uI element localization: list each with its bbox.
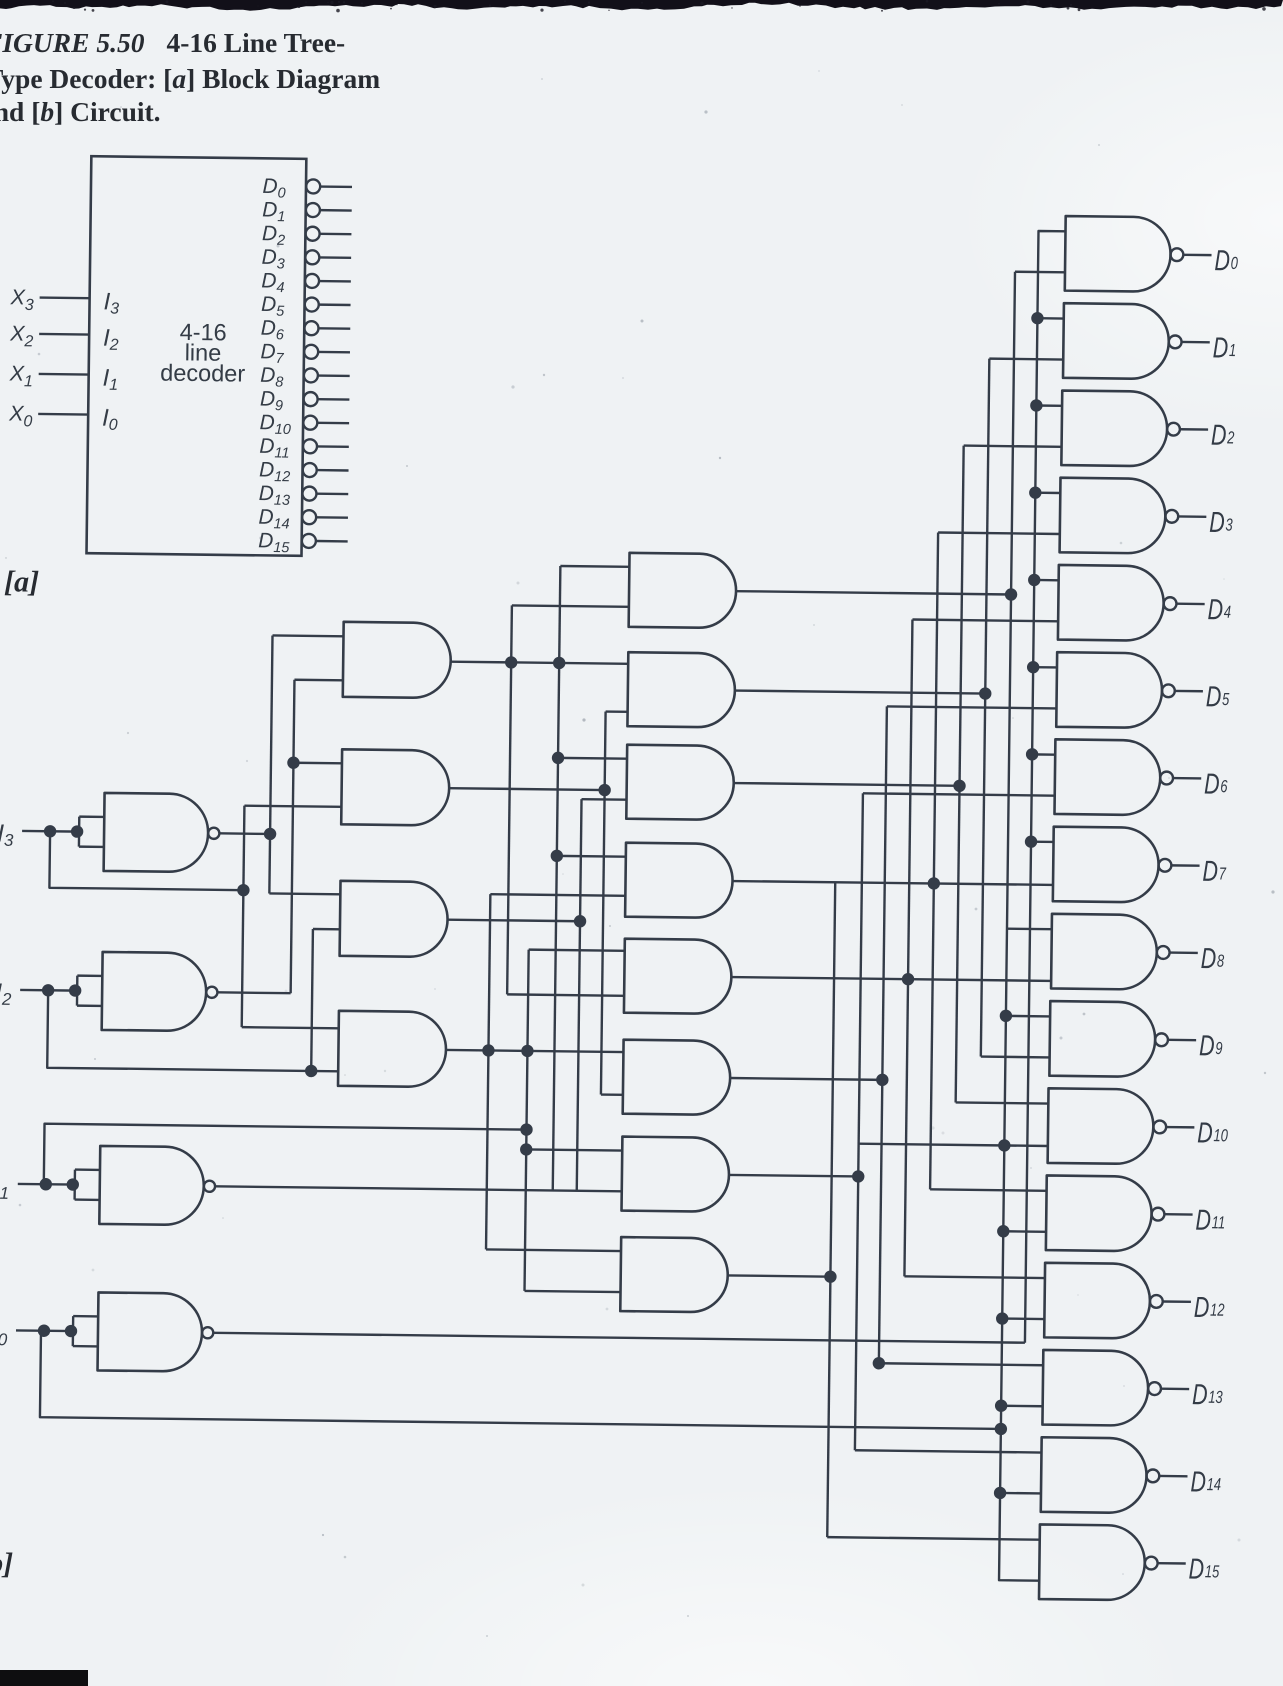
wire B4 bottom input line <box>490 894 625 896</box>
wire output D5 <box>1175 690 1203 693</box>
label D12 output <box>1194 1292 1225 1324</box>
bubble output D7 <box>1158 859 1171 872</box>
wire v530 riser (B5.top to B8.bottom) <box>525 950 529 1291</box>
junction A4 output at v530 <box>521 1045 534 1058</box>
AND gate B8 <box>620 1237 728 1312</box>
wire B2 output <box>735 691 985 694</box>
NAND gate D13 <box>1042 1350 1148 1426</box>
bubble output D9 <box>1155 1033 1168 1046</box>
wire I2-bar riser (A1.bottom to inverter) <box>291 680 295 993</box>
NAND gate D5 <box>1056 652 1162 728</box>
wire inverter I1 input bracket lower <box>75 1198 100 1201</box>
wire B5 riser (D4.bottom to D12.top) <box>904 619 912 1276</box>
junction I3 on riser <box>237 884 250 897</box>
junction trunk at D9 top <box>1000 1010 1013 1023</box>
wire D6 top input stub <box>1032 753 1055 756</box>
wire D13 bottom input stub <box>1001 1405 1042 1408</box>
bubble block output D12 <box>303 463 317 477</box>
wire I0 branch down long line <box>40 1331 1002 1429</box>
wire B5 bottom input stub <box>507 994 624 995</box>
junction I0 gate tie <box>65 1325 78 1338</box>
junction B1 output at trunk <box>1005 588 1018 601</box>
wire I2 riser (A3 bottom to I2 line) <box>311 929 313 1071</box>
junction trunk at I0 line <box>995 1423 1008 1436</box>
wire B3 output <box>734 783 960 786</box>
junction trunk at D13 bottom <box>995 1399 1008 1412</box>
NAND gate D2 <box>1061 391 1167 467</box>
wire B7 riser (D6.bottom to D14.top) <box>855 793 863 1450</box>
junction v557 at B3 top <box>552 752 565 765</box>
AND gate A2 <box>341 749 449 825</box>
NAND gate D0 <box>1065 216 1171 292</box>
label D8 output <box>1201 943 1225 975</box>
wire block output D8 <box>318 374 350 377</box>
wire D11 bottom input stub <box>1003 1230 1046 1233</box>
junction A3 output <box>574 915 587 928</box>
bubble output D1 <box>1169 335 1182 348</box>
bubble inverter I1 <box>204 1181 215 1192</box>
wire D13 top input line <box>879 1363 1043 1365</box>
junction B8 output <box>824 1270 837 1283</box>
AND gate A3 <box>340 881 448 957</box>
wire B6 riser (D5.bottom to D13.top) <box>879 706 887 1363</box>
label D6 output <box>1204 768 1228 800</box>
wire B5 top input stub <box>529 950 625 951</box>
bubble block output D0 <box>306 179 320 193</box>
wire D2 bottom input stub <box>964 446 1062 447</box>
inverter (NAND) for I3 <box>104 793 209 872</box>
wire D10 bottom input line <box>859 1144 1048 1146</box>
wire output D14 <box>1159 1475 1187 1478</box>
junction v530 at I1 line <box>520 1123 533 1136</box>
junction trunk at D1 top <box>1031 312 1044 325</box>
bubble block output D9 <box>304 392 318 406</box>
junction B2 output <box>979 687 992 700</box>
NAND gate D3 <box>1060 478 1166 554</box>
wire A2 top input stub <box>293 762 341 765</box>
wire I2 branch down to A4 bottom <box>47 990 339 1071</box>
trunk vertical feeding D0/D8-D15 inputs <box>999 272 1055 1581</box>
wire block output D4 <box>319 280 351 283</box>
wire B1 top input stub <box>560 565 629 568</box>
wire output D6 <box>1173 777 1201 780</box>
wire A1 top input stub <box>273 634 344 637</box>
bubble output D3 <box>1165 510 1178 523</box>
bubble output D11 <box>1152 1208 1165 1221</box>
wire B2 riser (D1.bottom to D9.bottom) <box>981 359 990 1057</box>
wire B2 bottom input stub <box>606 710 628 713</box>
label D4 output <box>1207 594 1231 626</box>
wire D12 bottom input stub <box>1002 1317 1044 1320</box>
wire I3-bar output <box>219 832 270 835</box>
wire B4 top input stub <box>557 855 626 858</box>
wire inverter I3 input bracket lower <box>79 845 104 848</box>
wire inverter I0 input bracket <box>73 1315 98 1318</box>
wire D12 top input stub <box>904 1276 1044 1278</box>
junction trunk at D3 top <box>1029 486 1042 499</box>
wire block output D13 <box>316 493 348 496</box>
junction B5 output <box>902 973 915 986</box>
NAND gate D1 <box>1063 303 1169 379</box>
wire output D15 <box>1158 1562 1186 1565</box>
wire block output D1 <box>320 209 352 212</box>
label D14 output <box>1190 1466 1221 1498</box>
wire B4 riser (D3.bottom to D11.top) <box>930 533 938 1190</box>
wire block output D14 <box>316 516 348 519</box>
wire B6 bottom input stub <box>601 1093 623 1096</box>
wire B8 riser (D7.bottom to D15.top) <box>827 882 835 1537</box>
bubble output D6 <box>1160 772 1173 785</box>
wire X1 to I1 <box>39 373 89 376</box>
wire output D12 <box>1163 1300 1191 1303</box>
wire D1 top input stub <box>1037 317 1063 320</box>
wire B6 output <box>730 1078 882 1080</box>
wire I3 branch down <box>49 831 244 890</box>
wire output D2 <box>1180 428 1208 431</box>
bubble block output D5 <box>305 297 319 311</box>
svg-text:FIGURE 5.504-16 Line Tree-: FIGURE 5.504-16 Line Tree- <box>0 27 345 58</box>
label D13 output <box>1192 1379 1223 1411</box>
wire output D10 <box>1166 1126 1194 1129</box>
wire D15 top input stub <box>827 1537 1039 1540</box>
wire D9 top input stub <box>1006 1015 1050 1018</box>
wire block output D9 <box>318 398 350 401</box>
wire D5 top input stub <box>1033 666 1057 669</box>
bubble block output D4 <box>305 274 319 288</box>
wire D3 bottom input stub <box>938 533 1060 534</box>
bubble output D0 <box>1170 248 1183 261</box>
junction I2 branch <box>42 984 55 997</box>
wire block output D5 <box>319 303 351 306</box>
wire B8 output <box>728 1275 831 1276</box>
label D3 output <box>1209 507 1233 539</box>
bubble block output D8 <box>304 368 318 382</box>
label D0 output <box>1214 245 1238 277</box>
junction B6 output <box>876 1074 889 1087</box>
bubble block output D13 <box>302 487 316 501</box>
bubble inverter I0 <box>202 1327 213 1338</box>
wire inverter I2 bracket tie <box>76 976 79 1006</box>
junction A4 output at v491 <box>482 1044 495 1057</box>
AND gate B5 <box>624 939 732 1014</box>
AND gate A1 <box>343 622 451 698</box>
label D9 output <box>1199 1030 1223 1062</box>
wire output D7 <box>1171 864 1199 867</box>
bubble inverter I3 <box>208 828 219 839</box>
junction B7 output <box>852 1170 865 1183</box>
wire D2 top input stub <box>1036 404 1062 407</box>
wire input I1 <box>18 1183 75 1186</box>
svg-text:[b]: [b] <box>0 1547 13 1580</box>
label D15 output <box>1188 1554 1219 1586</box>
junction v557 at B4 top <box>551 850 564 863</box>
junction A1 output at v509 <box>505 656 518 669</box>
wire input I3 <box>22 830 79 833</box>
wire I0-bar output to top trunk <box>213 1333 1025 1343</box>
wire inverter I3 bracket tie <box>78 817 81 847</box>
NAND gate D12 <box>1044 1263 1150 1339</box>
junction v530 at B7 top <box>520 1143 533 1156</box>
wire I3-bar riser (A1.top to A3.top) <box>269 635 272 893</box>
wire D3 top input stub <box>1035 491 1060 494</box>
junction trunk at D11 bottom <box>997 1225 1010 1238</box>
wire A3 top input stub <box>269 892 340 895</box>
wire B8 bottom input stub <box>525 1291 621 1292</box>
wire output D13 <box>1161 1387 1189 1390</box>
wire output D1 <box>1182 341 1210 344</box>
wire output D3 <box>1178 515 1206 518</box>
wire D14 top input stub <box>855 1450 1042 1452</box>
bubble inverter I2 <box>206 987 217 998</box>
svg-text:decoder: decoder <box>160 360 245 387</box>
bubble output D10 <box>1153 1120 1166 1133</box>
junction B6 riser at D13 top <box>873 1357 886 1370</box>
AND gate B4 <box>625 843 733 918</box>
bubble block output D6 <box>304 321 318 335</box>
bubble block output D3 <box>305 250 319 264</box>
svg-text:and [b] Circuit.: and [b] Circuit. <box>0 96 161 127</box>
junction B3 output <box>953 780 966 793</box>
wire B7 top input stub <box>526 1149 622 1150</box>
label D5 output <box>1206 681 1230 713</box>
junction I1 gate tie <box>67 1178 80 1191</box>
label D10 output <box>1197 1117 1228 1149</box>
NAND gate D4 <box>1058 565 1164 641</box>
junction trunk at D12 bottom <box>996 1312 1009 1325</box>
svg-text:Type Decoder: [a] Block Diagra: Type Decoder: [a] Block Diagram <box>0 63 380 94</box>
NAND gate D8 <box>1051 914 1157 990</box>
bubble output D13 <box>1148 1382 1161 1395</box>
wire B3 bottom input stub <box>582 798 627 801</box>
NAND gate D6 <box>1054 739 1160 815</box>
AND gate B2 <box>627 652 735 727</box>
junction I3 branch <box>44 825 57 838</box>
wire D5 bottom input stub <box>887 706 1057 708</box>
junction I3-bar at inverter output <box>264 828 277 841</box>
wire block output D15 <box>316 540 348 543</box>
bubble block output D14 <box>302 510 316 524</box>
junction I3 gate tie <box>71 825 84 838</box>
label D1 output <box>1212 332 1236 364</box>
junction trunk at D2 top <box>1030 399 1043 412</box>
junction A2 output <box>598 784 611 797</box>
wire block output D11 <box>317 445 349 448</box>
wire v604 riser (B2.bottom to B6.bottom) <box>601 712 606 1095</box>
bubble block output D15 <box>302 534 316 548</box>
wire A2 bottom input stub <box>244 806 341 807</box>
bubble block output D2 <box>306 227 320 241</box>
NAND gate D9 <box>1049 1001 1155 1077</box>
wire D7 top input stub <box>1031 840 1053 843</box>
junction trunk at D7 top <box>1025 835 1038 848</box>
wire v581 riser (B3.bottom to I1-bar line) <box>577 799 582 1191</box>
wire B7 output <box>729 1175 858 1177</box>
inverter (NAND) for I0 <box>98 1292 203 1371</box>
wire B8 top input stub <box>486 1249 621 1251</box>
junction trunk at D4 top <box>1028 574 1041 587</box>
bubble block output D10 <box>303 416 317 430</box>
wire A4 top input stub <box>242 1027 339 1028</box>
wire B1 output to trunk <box>736 591 1011 594</box>
wire v557 riser (B1.top to I1-bar line) <box>553 566 561 1190</box>
NAND gate D10 <box>1048 1088 1154 1164</box>
wire inverter I1 bracket tie <box>73 1170 76 1200</box>
bubble output D5 <box>1162 684 1175 697</box>
junction I2 at A3 riser <box>305 1065 318 1078</box>
bubble block output D7 <box>304 345 318 359</box>
wire A1 bottom input stub <box>294 679 342 682</box>
NAND gate D15 <box>1039 1524 1145 1600</box>
junction I1 branch <box>40 1178 53 1191</box>
wire output D0 <box>1183 254 1211 257</box>
wire B3 top input stub <box>558 757 627 760</box>
NAND gate D14 <box>1041 1437 1147 1513</box>
wire D9 bottom input stub <box>981 1055 1050 1058</box>
wire inverter I0 input bracket lower <box>73 1345 98 1348</box>
junction trunk at D5 top <box>1027 661 1040 674</box>
wire B4 output through to D7 bottom <box>733 881 1053 885</box>
wire inverter I2 input bracket lower <box>77 1004 102 1007</box>
wire D4 top input stub <box>1034 579 1058 582</box>
bubble output D4 <box>1164 597 1177 610</box>
wire output D8 <box>1170 951 1198 954</box>
wire block output D3 <box>319 256 351 259</box>
wire D6 bottom input stub <box>863 793 1055 795</box>
AND gate B1 <box>629 553 737 628</box>
wire inverter I0 bracket tie <box>72 1316 75 1346</box>
wire block output D2 <box>320 233 352 236</box>
wire inverter I2 input bracket <box>77 974 102 977</box>
wire D4 bottom input stub <box>912 619 1058 621</box>
AND gate A4 <box>338 1011 446 1087</box>
wire inverter I3 input bracket <box>79 815 104 818</box>
wire I3 riser (A2.bottom to A4.top) <box>242 806 245 1027</box>
svg-text:[a]: [a] <box>4 565 39 598</box>
wire B1 bottom input stub <box>512 605 629 606</box>
junction A1 output at v557 <box>553 657 566 670</box>
wire input I2 <box>20 989 77 992</box>
bubble output D14 <box>1146 1469 1159 1482</box>
wire A4 output through to B6 top <box>446 1050 623 1052</box>
wire D1 bottom input stub <box>989 357 1063 360</box>
bubble block output D11 <box>303 439 317 453</box>
inverter (NAND) for I2 <box>102 952 207 1031</box>
wire block output D6 <box>318 327 350 330</box>
wire X0 to I0 <box>38 413 88 416</box>
wire D11 top input stub <box>930 1189 1046 1190</box>
wire input I0 <box>16 1329 73 1332</box>
wire X3 to I3 <box>40 296 90 299</box>
wire block output D0 <box>320 185 352 188</box>
wire D10 top input stub <box>956 1102 1049 1103</box>
junction I0 branch <box>38 1324 51 1337</box>
wire output D11 <box>1164 1213 1192 1216</box>
label D2 output <box>1211 420 1235 452</box>
wire X2 to I2 <box>39 333 89 336</box>
wire v491 riser (B4.bottom to B8.top) <box>486 894 490 1249</box>
NAND gate D11 <box>1046 1175 1152 1251</box>
junction I2 gate tie <box>69 984 82 997</box>
wire A3 output <box>448 920 580 922</box>
wire output D4 <box>1176 603 1204 606</box>
wire I1 branch up <box>44 1124 527 1190</box>
AND gate B3 <box>626 745 734 820</box>
inverter (NAND) for I1 <box>99 1146 204 1225</box>
wire A3 bottom input stub <box>313 928 340 931</box>
label D7 output <box>1202 856 1227 888</box>
junction I2-bar at A2 top <box>287 756 300 769</box>
wire B3 riser (D2.bottom to D10.top) <box>956 446 964 1103</box>
decoder block rectangle U1 <box>86 156 306 556</box>
wire I1-bar output to B7 bottom <box>215 1186 622 1191</box>
bubble output D2 <box>1167 423 1180 436</box>
bubble output D8 <box>1157 946 1170 959</box>
AND gate B6 <box>623 1040 731 1115</box>
bubble block output D1 <box>306 203 320 217</box>
bubble output D12 <box>1150 1295 1163 1308</box>
junction trunk at D6 top <box>1026 748 1039 761</box>
wire inverter I1 input bracket <box>75 1168 100 1171</box>
junction B4 output <box>928 877 941 890</box>
wire block output D7 <box>318 351 350 354</box>
label D11 output <box>1195 1205 1225 1237</box>
wire A1 output through to B2 top <box>451 662 628 664</box>
wire I2-bar output <box>217 991 290 994</box>
wire output D9 <box>1168 1039 1196 1042</box>
junction trunk at D14 bottom <box>994 1487 1007 1500</box>
wire D8 top input stub <box>1007 927 1052 930</box>
NAND gate D7 <box>1053 827 1159 903</box>
wire block output D10 <box>317 422 349 425</box>
wire v509 riser (B1.bottom to B5.bottom) <box>507 605 512 994</box>
wire B5 output through to D8 bottom <box>731 977 1051 981</box>
wire I0-bar vertical trunk (feeds D0-D7 top inputs) <box>1025 231 1066 1343</box>
wire block output D12 <box>317 469 349 472</box>
bubble output D15 <box>1145 1557 1158 1570</box>
wire D14 bottom input stub <box>1000 1492 1041 1495</box>
wire D0 bottom input stub <box>1015 271 1065 274</box>
AND gate B7 <box>622 1137 730 1212</box>
junction trunk at D10 bottom <box>998 1139 1011 1152</box>
wire A2 output <box>449 788 604 790</box>
